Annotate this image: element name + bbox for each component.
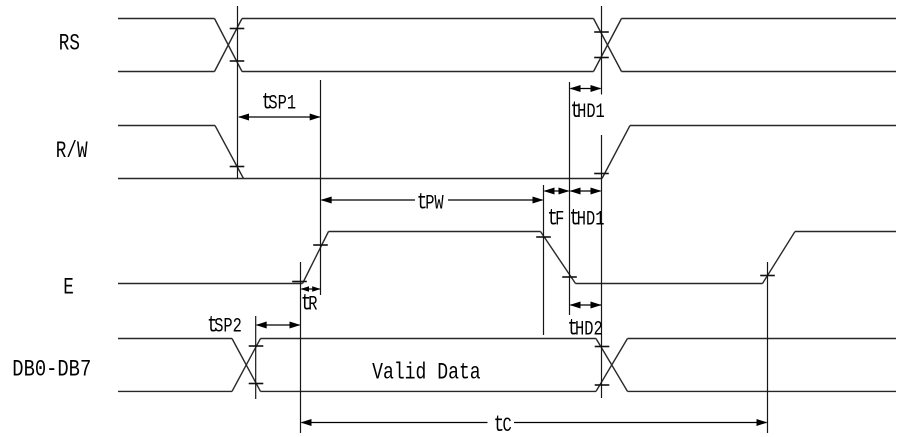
wire DB high rail left (118, 338, 232, 340)
wire RS high rail mid (242, 18, 594, 20)
node RS crossover 2 (594, 19, 622, 72)
svg-text:DB0-DB7: DB0-DB7 (12, 357, 91, 384)
node tick DB X1 upper (249, 345, 264, 347)
wire tSP2 dimension arrow (257, 324, 300, 326)
wire R/W low rail (118, 178, 602, 180)
node DB crossover 2 (596, 339, 628, 392)
node reference line V3 x=300.5 (300, 262, 302, 433)
node tick R/W fall (230, 166, 245, 168)
wire DB low rail mid (261, 390, 597, 392)
node tick RS X1 upper (230, 28, 245, 30)
svg-text:R/W: R/W (56, 139, 88, 165)
wire tF dimension arrow (545, 190, 569, 192)
wire RS low rail left (118, 71, 215, 73)
wire DB high rail right (628, 338, 897, 340)
wire tHD1 top dimension arrow (571, 88, 601, 90)
node reference line V6 x=569.5 (569, 82, 571, 315)
svg-text:HD1: HD1 (577, 101, 605, 124)
node reference line V8 x=767 (767, 262, 769, 433)
node tick DB X1 lower (249, 383, 264, 385)
svg-text:PW: PW (425, 193, 444, 216)
wire RS low rail mid (242, 71, 594, 73)
svg-text:C: C (503, 415, 512, 437)
node tick RS X1 lower (230, 60, 245, 62)
wire E high rail 2 (795, 231, 896, 233)
wire R/W high rail right (630, 125, 896, 127)
svg-text:R: R (308, 294, 317, 317)
wire R/W falling edge (215, 126, 244, 179)
wire E falling edge (541, 232, 576, 284)
node tick R/W rise (594, 173, 609, 175)
node tick E rise1 bottom (292, 281, 307, 283)
wire tSP1 dimension arrow (239, 116, 320, 118)
node tick E fall bottom (562, 276, 577, 278)
node reference line V7 upper x=601 (601, 6, 603, 95)
svg-text:E: E (63, 275, 74, 301)
wire R/W rising edge (602, 126, 630, 179)
svg-text:HD2: HD2 (575, 319, 603, 342)
wire E low rail 2 (576, 283, 763, 285)
wire E high rail 1 (329, 231, 541, 233)
svg-text:RS: RS (59, 31, 80, 57)
svg-text:HD1: HD1 (577, 209, 605, 232)
node tick E rise2 (760, 275, 775, 277)
wire DB high rail mid (261, 338, 597, 340)
node reference line V1 x=237 (237, 6, 239, 179)
wire E rising edge 2 (763, 232, 796, 284)
node reference line V2 x=320.5 (320, 80, 322, 295)
svg-text:Valid Data: Valid Data (372, 361, 481, 387)
wire DB low rail right (628, 390, 897, 392)
svg-text:F: F (555, 209, 564, 232)
wire tPW dimension arrow (322, 199, 543, 201)
node tick E fall top (536, 236, 551, 238)
node tick RS X2 upper (594, 31, 609, 33)
wire R/W high rail left (118, 125, 215, 127)
wire tR dimension arrow (302, 288, 320, 290)
wire E low rail 1 (118, 283, 303, 285)
node reference line V7 lower x=601.5 (601, 135, 603, 398)
svg-text:SP1: SP1 (268, 93, 296, 116)
wire RS high rail right (622, 18, 897, 20)
node tick DB X2 upper (595, 346, 610, 348)
node tick E rise1 top (313, 244, 328, 246)
node reference line V5 x=543 (543, 185, 545, 335)
wire tHD2 dimension arrow (571, 304, 602, 306)
wire E rising edge 1 (303, 232, 329, 284)
wire RS high rail left (118, 18, 215, 20)
wire tC dimension arrow (302, 422, 767, 424)
wire RS low rail right (622, 71, 897, 73)
svg-text:SP2: SP2 (214, 316, 242, 339)
wire DB low rail left (118, 390, 232, 392)
wire tHD1 bottom dimension arrow (571, 190, 601, 192)
node tick DB X2 lower (595, 384, 610, 386)
node RS crossover 1 (215, 19, 243, 72)
node tick RS X2 lower (594, 57, 609, 59)
node DB crossover 1 (232, 339, 261, 392)
node reference line V4 x=256 (255, 316, 257, 399)
